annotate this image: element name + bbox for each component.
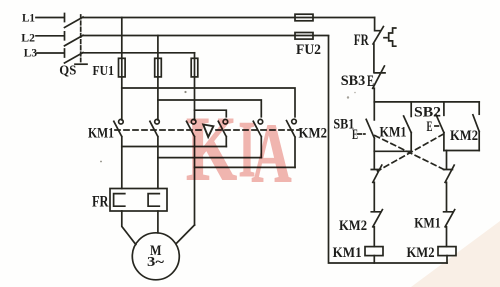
svg-text:QS: QS <box>59 64 76 79</box>
svg-text:FU1: FU1 <box>93 64 115 79</box>
svg-text:KM1: KM1 <box>414 216 441 232</box>
svg-text:FR: FR <box>92 194 109 211</box>
svg-text:L2: L2 <box>21 32 35 44</box>
svg-text:KM2: KM2 <box>407 245 435 261</box>
svg-text:SB2: SB2 <box>414 104 441 120</box>
svg-text:K: K <box>186 98 237 200</box>
svg-text:KM2: KM2 <box>299 126 328 142</box>
svg-text:FU2: FU2 <box>296 42 321 58</box>
svg-text:KM1: KM1 <box>333 245 362 261</box>
svg-text:KM2: KM2 <box>339 218 367 234</box>
svg-text:SB3: SB3 <box>341 73 366 89</box>
svg-text:E: E <box>427 119 433 135</box>
svg-text:A: A <box>252 107 292 201</box>
svg-text:E: E <box>367 73 374 90</box>
svg-text:KM1: KM1 <box>88 126 114 142</box>
svg-text:E: E <box>352 127 358 143</box>
svg-text:KM2: KM2 <box>450 128 478 144</box>
svg-text:L3: L3 <box>24 47 37 59</box>
svg-text:FR: FR <box>354 32 370 49</box>
svg-text:3~: 3~ <box>147 255 165 270</box>
svg-text:L1: L1 <box>22 12 35 24</box>
svg-text:KM1: KM1 <box>380 124 407 140</box>
